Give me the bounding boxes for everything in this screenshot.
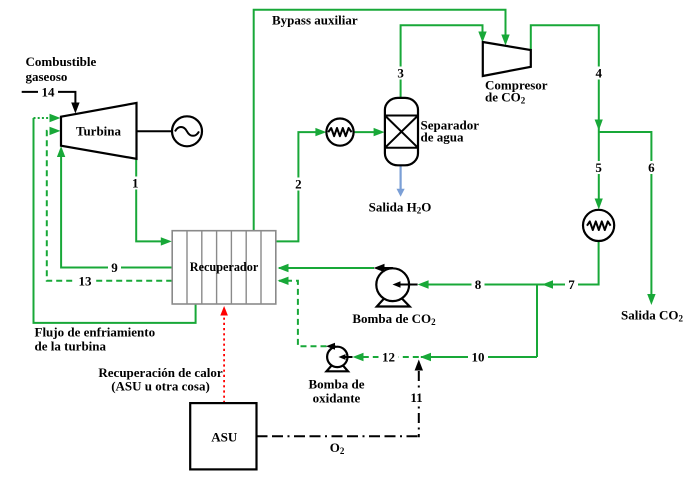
svg-text:14: 14 [42, 84, 56, 99]
svg-text:3: 3 [397, 66, 404, 81]
svg-text:ASU: ASU [211, 430, 238, 445]
shaft [137, 130, 173, 132]
wire 3 (separator top to compressor) [401, 25, 487, 98]
svg-text:10: 10 [472, 350, 485, 365]
svg-text:6: 6 [648, 160, 655, 175]
wire 6 branch (junction right and down to salida CO2) [599, 132, 656, 305]
generator G [172, 116, 202, 146]
svg-text:Bomba de: Bomba de [309, 377, 365, 392]
wire 1 (turbine outlet to recuperator) [136, 159, 172, 246]
svg-text:4: 4 [596, 66, 603, 81]
svg-text:(ASU u otra cosa): (ASU u otra cosa) [111, 379, 210, 394]
water separator vessel [385, 98, 418, 165]
oxidant pump [326, 343, 353, 372]
svg-text:Flujo de enfriamiento: Flujo de enfriamiento [35, 325, 156, 340]
CO2 compressor [483, 42, 531, 76]
ASU box [190, 403, 256, 469]
node label 2 [293, 177, 304, 192]
cooler HX2 [583, 210, 614, 241]
cooler HX1 [326, 119, 353, 146]
node label 4 [593, 66, 604, 81]
svg-text:Combustible: Combustible [26, 54, 97, 69]
svg-text:Bypass auxiliar: Bypass auxiliar [272, 13, 358, 28]
svg-text:Salida CO2: Salida CO2 [621, 308, 683, 324]
svg-text:Salida H2O: Salida H2O [369, 200, 432, 216]
svg-text:Bomba de CO2: Bomba de CO2 [352, 311, 436, 327]
wire 2 (recuperator to cooler) [276, 128, 327, 241]
svg-text:de CO2: de CO2 [485, 90, 526, 106]
svg-text:2: 2 [295, 177, 302, 192]
svg-text:de agua: de agua [421, 130, 464, 145]
node label 6 [646, 160, 657, 175]
wire red dotted heat recovery (ASU to recuperator) [220, 306, 228, 403]
svg-text:11: 11 [410, 390, 422, 405]
svg-text:de la turbina: de la turbina [35, 339, 107, 354]
wire 9 (recuperator to turbine bottom) [57, 146, 172, 268]
wire CO2 pump outlet to recuperator [278, 264, 375, 272]
wire junction 7 down leg [536, 285, 538, 358]
svg-text:Turbina: Turbina [76, 124, 122, 139]
svg-text:12: 12 [382, 350, 395, 365]
wire 14 combustible inlet [22, 92, 80, 114]
wire 5 (junction down to cooler 2) [595, 132, 603, 210]
wire 7-8 (cooler 2 to CO2 pump) [418, 241, 599, 289]
svg-text:7: 7 [568, 277, 575, 292]
wire blue water outlet [397, 165, 405, 197]
wire cooling flow (recuperator bottom to turbine left inlet) [34, 114, 196, 323]
wire 12 dashed (junction to oxidant pump) [353, 353, 419, 361]
svg-text:1: 1 [132, 176, 139, 191]
svg-text:gaseoso: gaseoso [26, 69, 68, 84]
CO2 pump [374, 264, 418, 307]
wire 4 (compressor outlet down to junction) [531, 25, 603, 132]
turbine [61, 103, 137, 159]
svg-text:9: 9 [111, 260, 118, 275]
svg-text:Recuperador: Recuperador [190, 259, 259, 274]
wire 10 [420, 353, 537, 361]
wire oxidant pump outlet dashed to recuperator [278, 277, 327, 347]
recuperator [172, 231, 276, 304]
node label 13 [75, 273, 95, 288]
node label 1 [131, 176, 142, 191]
wire 13 dashed (recuperator to turbine) [47, 127, 172, 281]
svg-text:13: 13 [79, 273, 93, 288]
wire 11 dash-dot O2 line from ASU [257, 360, 424, 438]
node label 14 [38, 84, 58, 99]
node label 5 [593, 160, 604, 175]
node label 12 [379, 350, 399, 365]
wire bypass auxiliar (recuperator top to compressor) [254, 10, 510, 231]
node label 11 [407, 390, 427, 405]
svg-text:5: 5 [595, 160, 602, 175]
node label 8 [472, 277, 485, 292]
svg-text:8: 8 [475, 277, 482, 292]
node label 7 [565, 277, 578, 292]
node label 10 [468, 350, 488, 365]
node label 9 [108, 260, 121, 275]
wire cooler to water separator [354, 128, 385, 136]
node label 3 [395, 66, 406, 81]
svg-text:oxidante: oxidante [313, 391, 361, 406]
